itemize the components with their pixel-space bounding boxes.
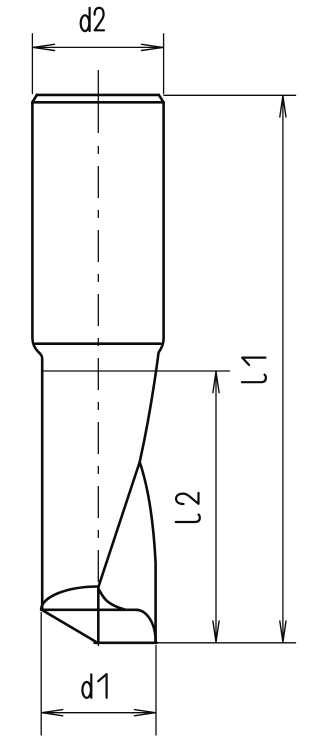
- glyph d of d2: [81, 8, 90, 31]
- shank top edge full width: [32, 101, 163, 104]
- shank outline: [32, 95, 163, 610]
- l1 dimension line: [282, 96, 284, 643]
- l2 bottom arrowhead: [213, 621, 219, 642]
- d1 left arrowhead: [42, 710, 63, 716]
- bottom cutting edge horizontal: [41, 608, 137, 611]
- d1 right arrowhead: [134, 710, 155, 716]
- shank right side + neck fillet + flute spiral silhouette: [140, 102, 164, 462]
- l1 bottom arrowhead: [280, 621, 286, 642]
- glyph 2 of d2: [95, 8, 104, 31]
- dimension l1: [164, 95, 296, 642]
- shank right chamfer: [159, 95, 164, 102]
- l2 top arrowhead: [213, 372, 219, 393]
- shank bottom line: [36, 342, 161, 345]
- glyph l of l1: [242, 375, 266, 383]
- l2 top extension line / flute start line: [42, 370, 229, 372]
- dimension l2: [42, 371, 295, 643]
- centerline (vertical axis, dash-dot): [97, 70, 99, 656]
- dimension d2: [32, 34, 163, 94]
- label d1: [82, 674, 106, 698]
- d2 right arrowhead: [142, 44, 163, 50]
- shank top face line: [37, 94, 159, 97]
- d2 right extension line: [163, 34, 165, 94]
- bottom extension line: [158, 642, 296, 644]
- glyph 1 of l1: [242, 358, 265, 365]
- dimension d1: [41, 613, 156, 736]
- flute end curve to left tooth point: [41, 587, 98, 610]
- shank left chamfer: [32, 95, 36, 102]
- shank left side + neck fillet + flute left edge: [32, 102, 42, 609]
- glyph d of d1: [82, 674, 91, 698]
- gash hook curve: [98, 589, 125, 610]
- d2 dimension line: [33, 46, 163, 48]
- d2 left extension line: [31, 34, 33, 94]
- l1 top extension line: [164, 94, 296, 96]
- corner radius curve bottom right: [137, 610, 156, 642]
- glyph 1 of d1: [98, 674, 106, 698]
- right land edge curve (lower silhouette): [140, 462, 156, 642]
- l1 top arrowhead: [280, 96, 286, 117]
- fluted body: [41, 462, 157, 643]
- end face dish diagonal: [41, 610, 95, 642]
- label l1 (rotated): [242, 358, 266, 383]
- d2 left arrowhead: [33, 44, 54, 50]
- d1 right extension line: [155, 646, 157, 736]
- d1 dimension line: [42, 712, 156, 714]
- label d2: [81, 8, 104, 31]
- label l2 (rotated): [176, 493, 200, 522]
- glyph 2 of l2: [176, 493, 198, 504]
- glyph l of l2: [176, 515, 200, 523]
- tooth face vertical line: [97, 587, 100, 643]
- l2 dimension line: [215, 372, 217, 643]
- d1 left extension line: [40, 613, 42, 736]
- flute spiral across face: [99, 462, 140, 586]
- bottom flat line: [95, 641, 157, 644]
